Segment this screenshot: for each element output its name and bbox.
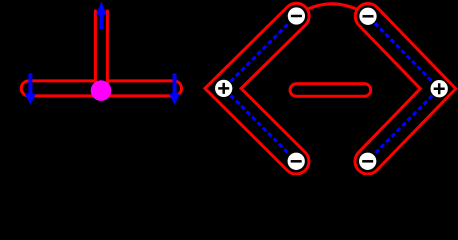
right boomerang outline bbox=[368, 16, 438, 161]
negative charge top-right bbox=[359, 7, 378, 26]
vertical rod left edge bbox=[94, 11, 97, 90]
positive charge left bbox=[214, 79, 233, 98]
point mass bbox=[91, 80, 112, 101]
dashed dipole line lower-left bbox=[231, 95, 290, 154]
right down force arrow bbox=[169, 73, 180, 105]
middle capsule outline bbox=[296, 82, 364, 98]
positive charge right bbox=[430, 79, 449, 98]
dashed dipole line upper-right bbox=[375, 23, 432, 82]
top connecting arc bbox=[300, 4, 364, 13]
up force arrow bbox=[96, 1, 106, 29]
vertical rod interior opening into horizontal rod bbox=[95, 0, 107, 90]
negative charge bottom-right bbox=[358, 152, 377, 171]
negative charge top-left bbox=[287, 7, 306, 26]
left down force arrow bbox=[25, 73, 36, 105]
left boomerang outline bbox=[223, 16, 296, 161]
dashed dipole line upper-left bbox=[231, 23, 290, 82]
horizontal rod outline bbox=[29, 79, 174, 97]
dashed dipole line lower-right bbox=[375, 96, 433, 154]
negative charge bottom-left bbox=[287, 152, 306, 171]
vertical rod right edge bbox=[106, 11, 109, 90]
